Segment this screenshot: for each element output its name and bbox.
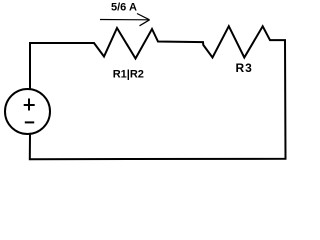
svg-text:R1|R2: R1|R2	[113, 68, 144, 80]
svg-text:5/6 A: 5/6 A	[111, 1, 137, 13]
svg-text:R3: R3	[236, 61, 253, 75]
